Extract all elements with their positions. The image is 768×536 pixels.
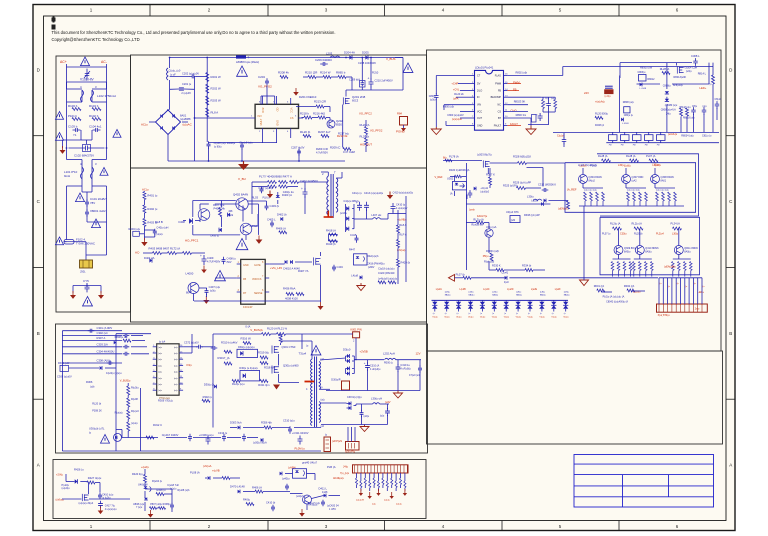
- ground G-B2a: [295, 88, 297, 92]
- svg-text:R84: R84: [397, 112, 402, 116]
- svg-text:(u: (u: [492, 313, 494, 315]
- capacitor C427: [260, 187, 264, 194]
- wire TP stub: [403, 125, 405, 128]
- transformer T401 core: [330, 174, 332, 218]
- wire rails to C102: [66, 130, 68, 160]
- transistor Q303 (MOSFET): [483, 160, 489, 167]
- svg-text:RL28 (A: RL28 (A: [626, 154, 636, 158]
- ruler tick top: [384, 5, 386, 17]
- diode D407a: [285, 260, 287, 264]
- svg-text:4.7uF/50V: 4.7uF/50V: [316, 151, 328, 155]
- svg-text:R426 (u: R426 (u: [74, 467, 84, 471]
- U301 pin L5: [153, 371, 157, 373]
- capacitor C-right1: [546, 101, 551, 109]
- svg-text:C418 (PAN40(u: C418 (PAN40(u: [367, 262, 385, 265]
- transformer T304 primary winding: [311, 359, 313, 426]
- title block column line 1: [622, 475, 624, 507]
- resistor R-right2: [554, 100, 557, 109]
- svg-text:A: A: [37, 463, 40, 468]
- svg-text:(u: (u: [457, 313, 459, 315]
- revision mark glyph 1: [52, 18, 56, 22]
- svg-text:GND: GND: [243, 264, 249, 267]
- svg-text:C207 4u0V: C207 4u0V: [291, 146, 305, 150]
- inductor L407: [373, 218, 381, 219]
- svg-text:(u8(u: (u8(u: [469, 292, 475, 294]
- LD201 pin R13: [503, 96, 507, 98]
- ruler tick top: [618, 5, 620, 17]
- svg-text:T: T: [334, 171, 336, 175]
- inductor L203: [330, 56, 340, 58]
- resistor ladder Q307: [627, 192, 630, 201]
- capacitor C407: [205, 288, 209, 296]
- svg-text:R427 4(u(u: R427 4(u(u: [88, 476, 102, 480]
- svg-text:RL2(u (A: RL2(u (A: [610, 221, 621, 225]
- block border: PFC stage: [131, 55, 427, 168]
- svg-text:+C311 04/16V: +C311 04/16V: [292, 431, 309, 435]
- LD201 pin R9: [503, 125, 507, 127]
- U301 pin L2: [153, 352, 157, 354]
- diode D410: [346, 206, 349, 210]
- svg-text:L8088 Fqw (46uH): L8088 Fqw (46uH): [236, 60, 259, 64]
- resistor R436: [286, 293, 294, 296]
- resistor R101: [72, 118, 81, 121]
- connector JB (red): [324, 437, 331, 452]
- svg-text:R334 (b: R334 (b: [522, 264, 532, 268]
- svg-text:R402 (u: R402 (u: [147, 207, 157, 211]
- svg-text:L203: L203: [326, 52, 333, 56]
- warning triangle W13: [215, 271, 226, 281]
- capacitor C410e: [271, 505, 275, 512]
- title block outline: [574, 455, 714, 508]
- resistor RL28t: [662, 72, 670, 75]
- wire R40x stack: [143, 190, 145, 193]
- resistor RL20c: [127, 386, 130, 395]
- wire LED bus: [471, 277, 505, 279]
- svg-text:R8013(u0K: R8013(u0K: [674, 76, 687, 79]
- op-amp U-LD200 box: [255, 104, 298, 128]
- svg-text:(u8(u: (u8(u: [516, 292, 522, 294]
- svg-text:(u(u8088: (u(u8088: [180, 117, 191, 121]
- svg-text:L(u2F: L(u2F: [555, 289, 562, 291]
- capacitor C801: [434, 93, 439, 100]
- diode D402: [280, 217, 282, 221]
- wire fuse: [66, 238, 68, 240]
- capacitor C308t: [693, 58, 698, 66]
- capacitor C311b: [468, 190, 473, 198]
- svg-text:R800 3m: R800 3m: [516, 113, 527, 117]
- wire upper cells bus: [582, 168, 584, 175]
- svg-text:7W: 7W: [609, 145, 612, 147]
- capacitor C205: [240, 142, 244, 150]
- warning triangle W3: [55, 133, 63, 141]
- svg-text:C41(u (u: C41(u (u: [352, 192, 362, 195]
- svg-text:V_BUS(A: V_BUS(A: [250, 328, 262, 332]
- capacitor C322: [360, 410, 364, 418]
- svg-text:Q301 CTN0: Q301 CTN0: [282, 345, 296, 349]
- svg-text:R3017_(A: R3017_(A: [218, 356, 230, 360]
- svg-text:U3(u (uA: U3(u (uA: [486, 225, 497, 229]
- svg-text:C410 (b: C410 (b: [266, 501, 276, 505]
- svg-text:(u(u(u: (u(u(u: [156, 233, 163, 236]
- svg-text:R209 C/R: R209 C/R: [316, 147, 328, 151]
- svg-text:4 uF(u5(u: 4 uF(u5(u: [400, 368, 411, 371]
- resistor RL20b: [262, 333, 271, 336]
- wire c2b: [145, 488, 172, 490]
- block border: bottom auxiliary strip: [53, 460, 426, 519]
- svg-text:8A0(u: 8A0(u: [684, 251, 691, 254]
- wire XS1 risers: [658, 278, 660, 304]
- ground G-CY5-L: [72, 291, 74, 295]
- LD201 pin L1: [471, 75, 475, 77]
- svg-text:(uM: (uM: [511, 219, 515, 222]
- wire AC- row: [143, 252, 153, 254]
- transistor Q308: [651, 175, 660, 184]
- svg-text:VIN: VIN: [477, 104, 481, 107]
- svg-text:B: B: [729, 331, 732, 336]
- svg-text:(u8(u: (u8(u: [564, 292, 570, 294]
- svg-text:R80(u (uW: R80(u (uW: [640, 67, 653, 70]
- svg-text:(uAUL(u: (uAUL(u: [668, 133, 678, 136]
- capacitor C104: [93, 128, 101, 132]
- capacitor C413: [285, 484, 289, 491]
- svg-text:FAULT(u: FAULT(u: [477, 214, 488, 218]
- svg-text:C301 (A 0RV: C301 (A 0RV: [97, 326, 113, 330]
- svg-text:PN(u: PN(u: [483, 255, 489, 258]
- svg-text:C202 (u(u(u0V: C202 (u(u(u0V: [182, 72, 199, 76]
- resistor R307: [123, 339, 131, 342]
- diode D311a: [347, 367, 350, 371]
- wire fan bus: [61, 331, 63, 451]
- capacitor C319e +: [396, 364, 401, 372]
- svg-text:R208 4k: R208 4k: [278, 71, 289, 75]
- svg-text:K001 PIN: K001 PIN: [351, 327, 362, 331]
- title block row line 1: [574, 463, 714, 465]
- capacitor C-c2: [170, 503, 174, 510]
- svg-text:V(u(u: V(u(u: [492, 317, 498, 319]
- svg-text:2x(u: 2x(u: [695, 309, 700, 311]
- wire right col: [392, 211, 394, 214]
- resistor RL73: [290, 181, 299, 184]
- svg-text:VG_PFG2: VG_PFG2: [258, 85, 272, 89]
- svg-text:R814 L: R814 L: [698, 72, 707, 76]
- ground G-mid red (hollow): [580, 280, 589, 286]
- svg-text:PL77/ 40400/9860 R477 A: PL77/ 40400/9860 R477 A: [259, 175, 292, 179]
- ground G-d5: [404, 489, 406, 493]
- wire cell Q309: [618, 255, 620, 260]
- warning triangle W11: [403, 63, 413, 72]
- resistor R403: [143, 218, 146, 226]
- svg-text:R310 b (u4kV: R310 b (u4kV: [221, 341, 238, 345]
- wire bus upper: [553, 131, 719, 133]
- warning triangle W14: [311, 346, 321, 355]
- svg-text:D470 L4148: D470 L4148: [230, 485, 245, 489]
- resistor R402: [143, 205, 146, 213]
- wire V102 bottom rail: [67, 81, 107, 83]
- svg-text:RL28 (A: RL28 (A: [660, 67, 670, 71]
- capacitor C402 +: [303, 188, 308, 198]
- svg-text:R40(u: R40(u: [243, 498, 251, 502]
- transistor Q302 (MOSFET): [272, 366, 279, 374]
- svg-text:8047: 8047: [186, 291, 192, 295]
- svg-text:X8001 4u02: X8001 4u02: [90, 209, 106, 213]
- wire c4: [285, 473, 293, 475]
- wire C202 string: [170, 88, 179, 90]
- svg-text:P308 2K: P308 2K: [92, 410, 102, 413]
- warning triangle W8: [55, 237, 63, 245]
- diode LED unit 11: [553, 300, 555, 301]
- svg-text:8A0(u: 8A0(u: [624, 251, 631, 254]
- svg-text:C403 (k: C403 (k: [270, 204, 280, 208]
- resistor R441: [222, 477, 230, 480]
- svg-text:4.7UF/400V: 4.7UF/400V: [207, 261, 221, 264]
- capacitor C410c: [98, 493, 102, 500]
- U301 pin R9: [179, 389, 183, 391]
- wire bottoms: [208, 141, 210, 144]
- capacitor C308: [107, 361, 114, 365]
- inductor L101 winding B: [91, 167, 94, 179]
- svg-text:V_BUS: V_BUS: [386, 57, 396, 61]
- svg-text:RJ10: RJ10: [372, 71, 379, 75]
- svg-text:(u: (u: [540, 313, 542, 315]
- svg-text:L407 uH: L407 uH: [371, 213, 381, 217]
- ruler tick left: [33, 267, 44, 269]
- svg-text:L(u0(u: L(u0(u: [624, 165, 632, 168]
- wire ctrl2: [466, 222, 476, 224]
- op-amp U401 box: [241, 259, 266, 304]
- U301 pin R12: [179, 371, 183, 373]
- wire tr top: [620, 62, 692, 64]
- small box U304: [510, 216, 520, 223]
- varistor V102: [85, 69, 90, 81]
- U301 pin R11: [179, 377, 183, 379]
- svg-text:+C309 (uL(u: +C309 (uL(u: [199, 433, 214, 437]
- U301 pin L1: [153, 346, 157, 348]
- ground G-C407: [205, 296, 207, 300]
- U301 pin L6: [153, 377, 157, 379]
- ground G-Q302 red: [273, 385, 280, 390]
- resistor R427: [87, 481, 95, 484]
- svg-text:L(u2D: L(u2D: [507, 289, 514, 291]
- capacitor C405: [270, 221, 274, 228]
- svg-text:L(u03: L(u03: [531, 200, 538, 203]
- svg-text:C7(u0 (u4: C7(u0 (u4: [409, 374, 420, 377]
- ground G-CY5-R: [100, 291, 102, 295]
- svg-text:+: +: [364, 361, 366, 365]
- svg-text:T 0A6 250VAC: T 0A6 250VAC: [76, 242, 95, 246]
- resistor R202: [206, 84, 209, 93]
- wire tr box bottom: [637, 83, 661, 85]
- transistor Q202: [327, 120, 335, 128]
- capacitor C415: [355, 235, 359, 243]
- svg-text:(u4(u(u8 (u(u(u(u: (u4(u(u8 (u(u(u(u: [378, 277, 398, 280]
- svg-text:Q202: Q202: [336, 119, 343, 123]
- svg-text:(u: (u: [552, 313, 554, 315]
- LD201 pin L2: [471, 83, 475, 85]
- ruler tick bottom: [618, 521, 620, 532]
- svg-text:R8023 9K: R8023 9K: [514, 99, 526, 103]
- svg-text:/50V: /50V: [227, 261, 232, 264]
- svg-text:(u: (u: [516, 313, 518, 315]
- diode D411L: [324, 494, 326, 498]
- svg-text:L(u2B: L(u2B: [460, 289, 467, 291]
- boxed resistor RW2: [621, 135, 630, 141]
- svg-text:4148: 4148: [322, 491, 328, 494]
- svg-text:D205: D205: [362, 51, 369, 55]
- wire tr right: [712, 63, 714, 75]
- transformer T401 secondary winding: [336, 178, 338, 212]
- warning triangle W9: [83, 297, 93, 306]
- transistor Q309: [614, 246, 623, 255]
- svg-text:(u0(u: (u0(u: [210, 289, 216, 292]
- wire bus lower: [606, 142, 719, 144]
- svg-text:R307 A: R307 A: [97, 336, 106, 340]
- svg-text:MULT: MULT: [259, 118, 263, 125]
- capacitor C323 +: [385, 408, 390, 416]
- svg-text:C8(u0: C8(u0: [715, 99, 722, 101]
- svg-text:RL20 (A RL21 %: RL20 (A RL21 %: [267, 327, 288, 331]
- svg-text:RL20 (A: RL20 (A: [360, 123, 370, 127]
- wire led row top bus: [432, 299, 569, 301]
- diode LED unit 9: [529, 300, 531, 301]
- LD201 pin R15: [503, 83, 507, 85]
- resistor R407b: [219, 208, 222, 217]
- ruler tick left: [33, 398, 44, 400]
- svg-text:V_BU: V_BU: [238, 177, 246, 181]
- optocoupler U402 box: [293, 469, 307, 479]
- svg-text:L(u2C: L(u2C: [483, 289, 490, 291]
- svg-text:R43(u(u: R43(u(u: [308, 503, 318, 507]
- resistor RL74: [268, 185, 277, 188]
- svg-text:(uEA(uB(u: (uEA(uB(u: [664, 266, 676, 269]
- transistor QR11: [674, 246, 683, 255]
- resistor R409: [168, 252, 177, 255]
- diode D304: [214, 385, 216, 389]
- svg-text:C40(u (uH: C40(u (uH: [156, 225, 168, 229]
- svg-text:Copyright@ShenzhenKTC Technol: Copyright@ShenzhenKTC Technology Co.,LTD: [52, 37, 140, 42]
- warning triangle W4: [113, 130, 121, 138]
- wire K001: [302, 333, 353, 335]
- optocoupler U403: [354, 254, 368, 265]
- svg-text:R210 (2R: R210 (2R: [305, 71, 317, 75]
- resistor RL28r1: [602, 159, 611, 162]
- svg-text:(umb: (umb: [469, 209, 475, 212]
- resistor R8x8b: [686, 108, 689, 116]
- svg-text:Q402 8A4N: Q402 8A4N: [233, 192, 248, 196]
- wire top bus: [213, 333, 262, 335]
- diode D405: [228, 213, 231, 217]
- svg-text:C40(u 2u: C40(u 2u: [283, 190, 295, 194]
- svg-text:9mH: 9mH: [64, 174, 70, 178]
- svg-text:4 uF(u0(u: 4 uF(u0(u: [370, 368, 381, 371]
- svg-text:R214 W: R214 W: [320, 71, 331, 75]
- wire out bottom rail: [326, 390, 420, 392]
- warning triangle W12: [236, 239, 248, 250]
- svg-text:C407 (u(u: C407 (u(u: [209, 285, 221, 289]
- capacitor C408: [222, 257, 226, 265]
- wire cell Q307: [625, 184, 627, 189]
- svg-text:AC(u: AC(u: [142, 187, 149, 191]
- svg-text:C(u41: C(u41: [501, 271, 508, 274]
- diode D801: [640, 83, 642, 87]
- resistor R207: [321, 135, 329, 138]
- snubber box D308: [240, 371, 260, 381]
- svg-text:GND: GND: [275, 120, 279, 126]
- block border: primary switching stage: [131, 168, 427, 322]
- svg-text:R002 ((A: R002 ((A: [624, 284, 635, 288]
- U301 pin L7: [153, 383, 157, 385]
- diode D409: [360, 275, 362, 279]
- title block row line 4: [574, 496, 714, 498]
- svg-text:(u: (u: [480, 313, 482, 315]
- svg-text:P807 (u0(u R338(u: P807 (u0(u R338(u: [150, 503, 171, 506]
- svg-text:R207 4u7: R207 4u7: [318, 130, 331, 134]
- resistor RL20: [206, 108, 209, 117]
- svg-text:R308 ((A (ubP: R308 ((A (ubP: [524, 214, 540, 217]
- svg-text:L(u2E: L(u2E: [531, 289, 538, 291]
- svg-text:L30(u: L30(u: [618, 164, 625, 167]
- svg-text:PWM: PWM: [495, 83, 501, 86]
- wire Q402 frame: [192, 201, 194, 218]
- svg-text:CT: CT: [477, 75, 481, 78]
- ruler tick top: [149, 5, 151, 17]
- resistor R437: [296, 293, 304, 296]
- wire RLD col: [365, 120, 367, 126]
- diode LED unit 1: [434, 300, 436, 301]
- svg-text:Q30(u (uN60: Q30(u (uN60: [283, 364, 299, 368]
- LD201 pin R16: [503, 75, 507, 77]
- svg-text:(u(u(uW: (u(u(uW: [356, 500, 365, 502]
- resistor RL28r2: [630, 159, 639, 162]
- svg-text:C80(u (u: C80(u (u: [624, 114, 634, 117]
- svg-text:C209 b(A: C209 b(A: [349, 78, 360, 82]
- diode LED unit 6: [493, 300, 495, 301]
- title block row line 2: [574, 474, 714, 476]
- ground G-d3: [378, 489, 380, 493]
- svg-text:+2V(u: +2V(u: [56, 473, 64, 477]
- resistor PL07: [463, 276, 471, 279]
- bridge rectifier BA01: [156, 110, 181, 135]
- svg-text:(u40(u: (u40(u: [282, 477, 290, 481]
- svg-text:+C(u11: +C(u11: [480, 187, 488, 190]
- svg-text:C201 (u: C201 (u: [182, 82, 192, 86]
- diode D411: [346, 217, 349, 221]
- wire fb bottom: [116, 429, 122, 431]
- resistor R201: [206, 73, 209, 82]
- capacitor C316: [288, 426, 292, 434]
- ground G-Q403: [258, 236, 260, 240]
- wire c1 top: [65, 474, 67, 482]
- wire cell Q310: [639, 255, 641, 260]
- resistor R401: [143, 192, 146, 200]
- LD201 pin L7: [471, 117, 475, 119]
- transformer T304 core: [314, 357, 316, 428]
- svg-text:8A0(u: 8A0(u: [469, 294, 476, 297]
- svg-text:PL0M (u: PL0M (u: [295, 447, 306, 451]
- svg-text:D402 (b: D402 (b: [277, 213, 287, 217]
- svg-text:C38 0(u( 0j(u: C38 0(u( 0j(u: [347, 396, 362, 399]
- svg-text:+(u(uA(u: +(u(uA(u: [595, 101, 605, 104]
- svg-text:4 u(u(u(u(u: 4 u(u(u(u(u: [105, 508, 117, 511]
- svg-text:R403 8408 8407 RLT2 (A: R403 8408 8407 RLT2 (A: [149, 247, 181, 251]
- svg-text:R800 (u(b: R800 (u(b: [443, 105, 455, 108]
- svg-text:8A0(u: 8A0(u: [564, 294, 571, 297]
- svg-text:R209 (C: R209 (C: [330, 146, 340, 150]
- svg-text:C(uD: C(uD: [511, 109, 517, 113]
- svg-text:C372 (u(u0V: C372 (u(u0V: [184, 340, 199, 344]
- resistor R425: [388, 281, 396, 284]
- svg-text:C410 (u: C410 (u: [396, 203, 406, 207]
- svg-text:(u(u (u(u (u(u: (u(u (u(u (u(u: [656, 190, 670, 192]
